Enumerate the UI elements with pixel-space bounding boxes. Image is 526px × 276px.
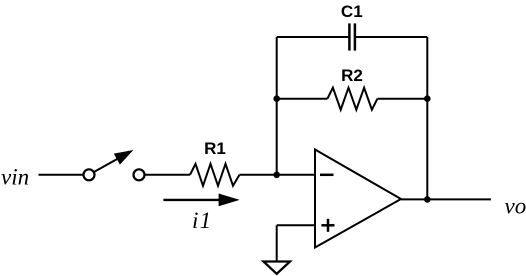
svg-text:R2: R2	[341, 66, 363, 85]
junction dot output node	[424, 196, 431, 203]
svg-text:vin: vin	[1, 165, 29, 190]
wire non-inverting input	[277, 224, 315, 226]
junction node A dot	[273, 172, 280, 179]
wire down to ground	[276, 225, 278, 261]
junction dot R2 right	[424, 95, 431, 102]
resistor R1	[190, 164, 240, 186]
wire R2 to right vertical	[377, 98, 427, 100]
op-amp U1	[315, 150, 401, 248]
switch S1 pole circle	[84, 169, 95, 180]
svg-text:R1: R1	[204, 139, 226, 158]
ground	[264, 262, 291, 274]
current arrow i1	[163, 199, 220, 201]
wire C1 to top right	[356, 36, 428, 38]
wire top left to C1	[277, 36, 349, 38]
capacitor C1 left plate	[348, 23, 351, 50]
wire R1 to op-amp inverting input (node A)	[240, 174, 316, 176]
wire node A up to feedback	[276, 37, 278, 175]
junction dot R2 left	[273, 95, 280, 102]
op-amp minus symbol	[320, 174, 334, 177]
wire switch to R1	[145, 174, 190, 176]
op-amp plus symbol	[321, 224, 334, 227]
wire to R2	[277, 98, 328, 100]
wire vin to switch	[39, 174, 83, 176]
svg-text:vo: vo	[505, 194, 526, 219]
switch S1 throw circle	[134, 169, 145, 180]
switch S1 arrowhead	[114, 150, 134, 165]
resistor R2	[327, 88, 377, 110]
switch S1 arm	[95, 157, 121, 172]
wire right vertical feedback	[426, 37, 428, 199]
svg-text:C1: C1	[341, 2, 363, 21]
wire op-amp output	[401, 198, 491, 200]
capacitor C1 right plate	[354, 23, 357, 50]
svg-text:i1: i1	[192, 208, 212, 233]
